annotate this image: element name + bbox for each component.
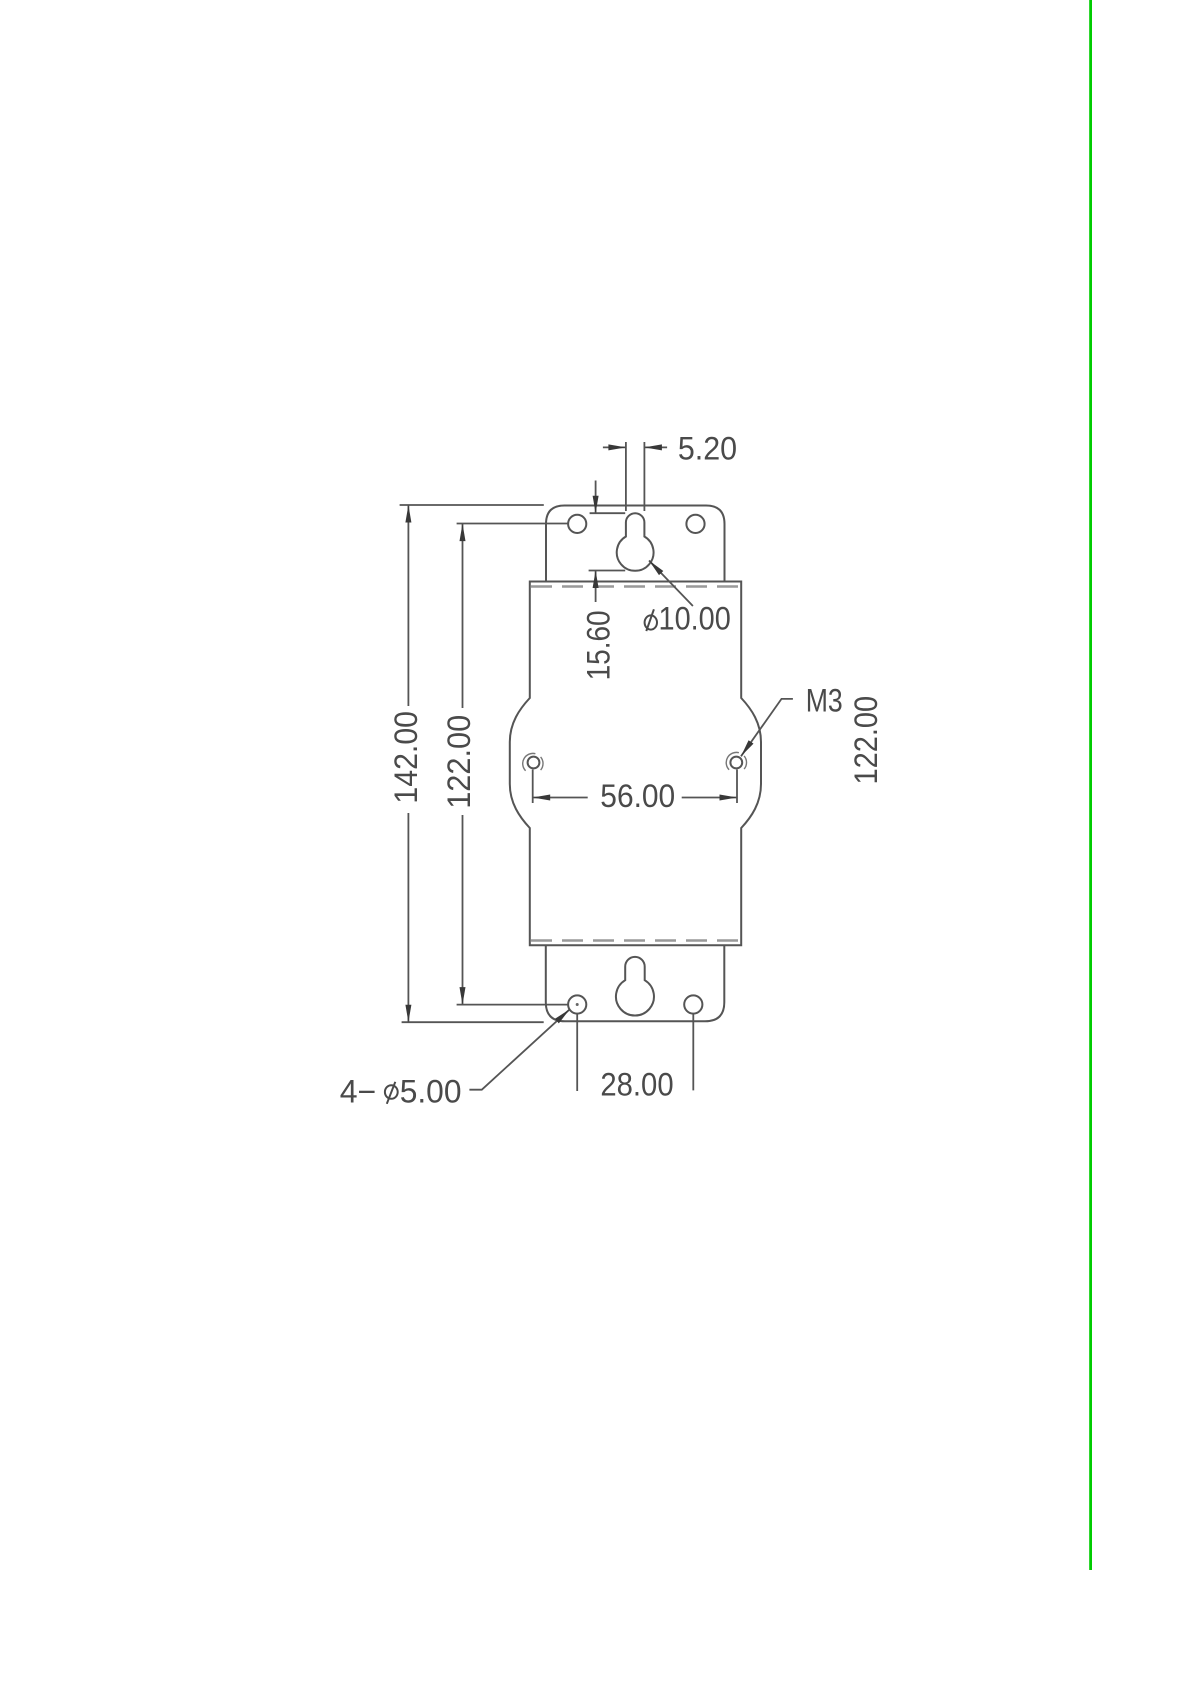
svg-text:M3: M3 <box>806 682 843 718</box>
svg-text:28.00: 28.00 <box>600 1067 673 1103</box>
svg-text:5.00: 5.00 <box>400 1074 462 1110</box>
svg-text:10.00: 10.00 <box>659 601 731 637</box>
svg-text:4−: 4− <box>340 1074 376 1110</box>
svg-text:15.60: 15.60 <box>581 610 617 680</box>
svg-text:56.00: 56.00 <box>600 778 675 814</box>
svg-text:5.20: 5.20 <box>678 431 737 467</box>
svg-text:142.00: 142.00 <box>388 711 424 804</box>
svg-text:122.00: 122.00 <box>441 715 477 809</box>
svg-text:122.00: 122.00 <box>848 696 884 785</box>
